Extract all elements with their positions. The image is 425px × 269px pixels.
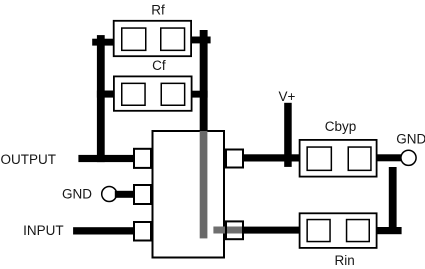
wire pin5 to Cbyp (244, 154, 300, 161)
capacitor Cf (114, 76, 192, 110)
wire inverting input trace under IC (grey horizontal) (213, 227, 244, 234)
label Cbyp (325, 119, 357, 134)
svg-text:OUTPUT: OUTPUT (1, 152, 57, 167)
wire Cf right stub (191, 91, 207, 98)
wire Rf left stub (92, 39, 113, 46)
wire GND via to pad 2 (115, 191, 134, 198)
svg-text:Rf: Rf (151, 2, 165, 17)
ground via (left) (102, 187, 117, 202)
wire Cf left stub (97, 91, 113, 98)
label Rf (151, 2, 165, 17)
IC pad pin 3 (INPUT) (134, 222, 151, 241)
wire Rin right stub (377, 227, 401, 234)
wire feedback trace right vertical (black above IC) (200, 30, 208, 131)
svg-text:GND: GND (396, 132, 425, 147)
label Rin (334, 253, 354, 268)
IC pad pin 1 (OUTPUT) (134, 149, 151, 168)
IC pad pin 2 (GND) (134, 185, 151, 204)
wire OUTPUT trace horizontal (78, 155, 133, 162)
svg-text:V+: V+ (279, 89, 296, 104)
node V+ label (279, 89, 296, 104)
svg-text:GND: GND (62, 187, 92, 202)
svg-text:Cf: Cf (152, 58, 166, 73)
ground label (left) (62, 187, 92, 202)
wire feedback trace under IC (grey vertical) (200, 131, 208, 238)
node INPUT label (23, 223, 64, 238)
IC pad pin 4 (inverting input) (226, 221, 243, 239)
wire V+ supply trace (284, 103, 292, 167)
resistor Rin (300, 213, 377, 248)
resistor Rf (114, 21, 191, 56)
op-amp U1 body (SOT-23 package) (153, 131, 225, 258)
ground label (right) (396, 132, 425, 147)
wire Rf right stub (192, 37, 211, 44)
wire Cbyp to GND via (377, 154, 401, 161)
wire pin4 to Rin (black part) (244, 227, 299, 234)
node OUTPUT label (1, 152, 57, 167)
capacitor Cbyp (300, 140, 377, 177)
svg-text:INPUT: INPUT (23, 223, 64, 238)
wire output trace vertical (left feedback trace) (97, 35, 105, 162)
wire Rin right vertical to GND (389, 167, 397, 229)
svg-text:Cbyp: Cbyp (325, 119, 357, 134)
ground via (right) (401, 150, 416, 165)
label Cf (152, 58, 166, 73)
wire INPUT trace (73, 227, 133, 234)
svg-text:Rin: Rin (334, 253, 354, 268)
IC pad pin 5 (V+) (226, 150, 243, 168)
